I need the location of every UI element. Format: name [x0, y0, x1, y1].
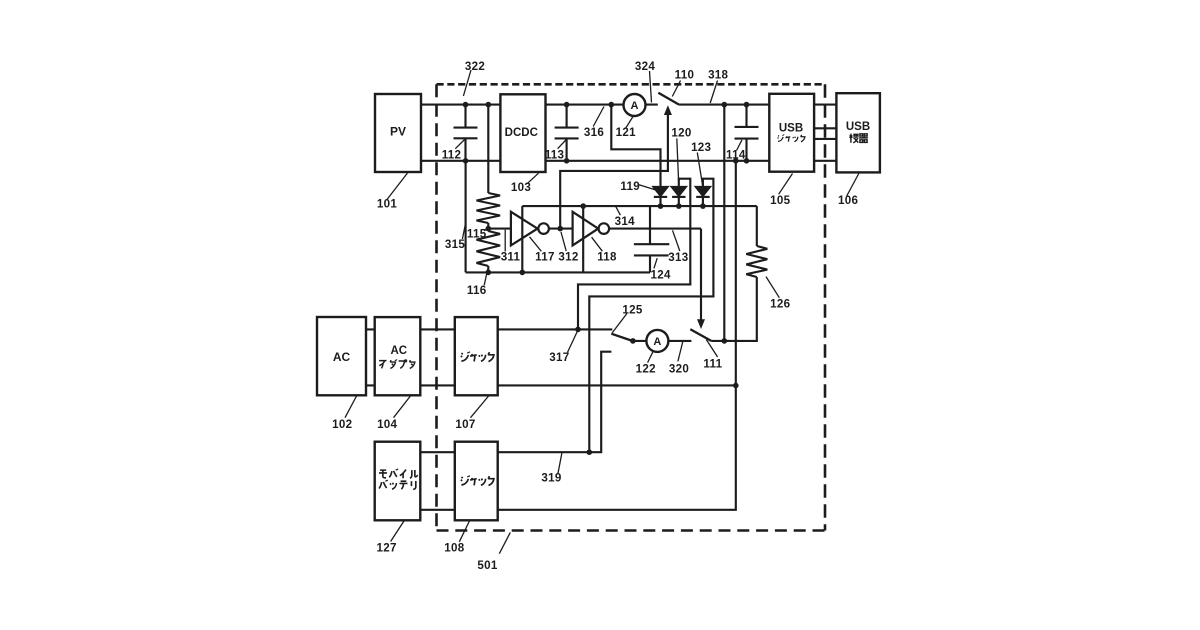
- svg-text:316: 316: [584, 126, 604, 139]
- svg-text:113: 113: [545, 148, 565, 161]
- svg-text:311: 311: [501, 250, 521, 263]
- svg-text:117: 117: [535, 250, 555, 263]
- leader 107: [471, 396, 490, 418]
- leader 102: [345, 396, 357, 418]
- leader 115: [484, 229, 488, 231]
- leader 122: [648, 351, 654, 363]
- wire vertical through inverter 1: [521, 206, 523, 272]
- leader 312: [561, 232, 566, 251]
- wire top rail PV to DCDC: [421, 104, 500, 106]
- svg-text:123: 123: [691, 141, 711, 154]
- svg-text:DCDC: DCDC: [505, 127, 538, 139]
- AC adapter box 104: [375, 317, 421, 395]
- svg-text:104: 104: [377, 418, 397, 431]
- svg-text:AC: AC: [333, 350, 351, 364]
- resistor R126: [746, 246, 767, 277]
- svg-text:318: 318: [708, 68, 728, 81]
- node divider feed junction on top rail: [486, 102, 492, 108]
- node junction on rail 314: [580, 203, 586, 209]
- wire battery row bottom rail: [420, 509, 455, 511]
- svg-text:319: 319: [541, 472, 561, 485]
- leader 320: [678, 342, 683, 361]
- node D123 cathode junction: [700, 203, 706, 209]
- text battery katakana: [379, 480, 416, 489]
- diode D123 cathode bar: [696, 196, 709, 198]
- diode D123: [696, 187, 710, 196]
- wire 315 left drop: [465, 161, 467, 273]
- ammeter 122 circle: [646, 330, 668, 352]
- arrowhead 120: [664, 105, 672, 115]
- USB device box 106: [836, 93, 880, 172]
- wire dashed pass-through inside DCDC: [500, 160, 545, 162]
- wire battery row top rail: [420, 352, 611, 453]
- arrowhead 111: [697, 319, 705, 329]
- leader 311: [504, 230, 506, 252]
- wire node 312: [549, 228, 573, 230]
- leader 125: [612, 314, 627, 333]
- USB jack box 105: [769, 94, 814, 172]
- wire feed to resistor divider: [487, 105, 489, 193]
- wire USB pin 3: [814, 138, 836, 140]
- leader 127: [391, 521, 405, 542]
- svg-text:PV: PV: [390, 125, 406, 139]
- node R116 junction on ground rail: [486, 270, 492, 276]
- wire oscillator ground rail: [466, 271, 650, 273]
- leader 317: [568, 332, 578, 353]
- leader 319: [558, 452, 562, 473]
- svg-text:119: 119: [620, 180, 640, 193]
- node 317 junction: [575, 327, 581, 333]
- wire AC row top rail: [366, 328, 612, 330]
- svg-text:101: 101: [377, 198, 397, 211]
- leader 313: [673, 230, 680, 251]
- svg-text:121: 121: [616, 126, 636, 139]
- leader 501: [499, 532, 510, 553]
- wire inverter 2 output: [609, 228, 701, 230]
- node 319 junction: [587, 449, 593, 455]
- capacitor C313/124: [634, 206, 669, 272]
- leader 110: [672, 81, 680, 97]
- svg-text:106: 106: [838, 194, 858, 207]
- capacitor C112: [454, 105, 478, 161]
- capacitor C114: [735, 105, 759, 161]
- jack box 107: [455, 317, 498, 395]
- wire arrow 111 drop from inverter output: [700, 229, 702, 320]
- switch 125 blade: [611, 334, 632, 341]
- inverter U312 triangle: [573, 212, 599, 246]
- AC box 102: [317, 317, 366, 395]
- dashed boundary box 501: [437, 84, 826, 530]
- svg-text:312: 312: [558, 250, 578, 263]
- wire ammeter 122 to switch 111: [633, 340, 692, 342]
- svg-text:AC: AC: [390, 345, 407, 357]
- node 316 junction on top rail: [609, 102, 615, 108]
- diode D119: [654, 187, 668, 196]
- svg-text:322: 322: [465, 60, 485, 73]
- node D119 cathode junction: [658, 203, 664, 209]
- wire divider middle: [487, 223, 489, 231]
- svg-text:320: 320: [669, 363, 689, 376]
- wire D123 cathode lead: [702, 197, 704, 206]
- leader 103: [527, 173, 539, 184]
- text USB jack katakana: [778, 135, 805, 142]
- svg-text:126: 126: [770, 298, 790, 311]
- inverter U311 bubble: [538, 223, 549, 234]
- svg-text:105: 105: [770, 194, 790, 207]
- svg-text:110: 110: [675, 68, 695, 81]
- leader 113: [558, 140, 567, 149]
- leader 120: [677, 139, 679, 187]
- wire drop from top rail to switch node: [723, 105, 725, 341]
- diode D119 cathode bar: [654, 196, 667, 198]
- wire top rail switch to USB jack: [679, 104, 769, 106]
- svg-text:317: 317: [549, 351, 569, 364]
- node 318 junction on top rail: [722, 102, 728, 108]
- node C112 junction on bottom rail: [463, 158, 469, 164]
- node C113 junction on bottom rail: [564, 158, 570, 164]
- node 312 junction: [557, 226, 563, 232]
- text mobile katakana: [379, 469, 418, 478]
- resistor R115: [477, 193, 501, 223]
- svg-text:116: 116: [467, 284, 487, 297]
- leader 117: [530, 237, 542, 252]
- svg-text:124: 124: [650, 268, 670, 281]
- svg-text:112: 112: [442, 148, 462, 161]
- inverter U312 bubble: [599, 223, 610, 234]
- wire vertical through inverter 2: [582, 206, 584, 272]
- svg-text:315: 315: [445, 238, 465, 251]
- resistor R116: [477, 231, 501, 266]
- leader 118: [592, 237, 603, 251]
- leader 108: [459, 521, 469, 542]
- leader 324: [650, 71, 652, 103]
- wire D120 cathode lead: [678, 197, 680, 206]
- leader 106: [847, 174, 859, 197]
- svg-text:USB: USB: [779, 123, 803, 135]
- node 322 junction on top rail: [463, 102, 469, 108]
- svg-text:102: 102: [332, 418, 352, 431]
- wire inverter U311 input: [488, 228, 511, 230]
- text AC adapter katakana: [379, 360, 415, 369]
- leader 126: [766, 277, 779, 298]
- leader 112: [455, 140, 464, 149]
- wire USB pin 1: [814, 104, 836, 106]
- wire drop from bottom rail to AC return and jack108 return: [498, 161, 736, 510]
- leader 119: [639, 185, 656, 190]
- svg-text:501: 501: [477, 559, 497, 572]
- svg-text:125: 125: [622, 303, 642, 316]
- text jack108 katakana: [461, 476, 470, 485]
- node junction on ground rail: [520, 270, 526, 276]
- leader 322: [463, 70, 471, 96]
- mobile battery box 127: [375, 442, 421, 521]
- diode D120: [672, 187, 686, 196]
- svg-text:USB: USB: [846, 121, 870, 133]
- capacitor C113: [555, 105, 579, 161]
- leader 101: [387, 173, 408, 200]
- node switch 125 output junction: [630, 338, 636, 344]
- node switch 111 output junction: [722, 338, 728, 344]
- leader 314: [616, 207, 621, 216]
- DCDC box 103: [500, 94, 545, 172]
- svg-text:103: 103: [511, 181, 531, 194]
- leader 315: [462, 223, 465, 239]
- node C114 junction on top rail: [744, 102, 750, 108]
- PV box 101: [375, 94, 421, 172]
- svg-text:120: 120: [671, 127, 691, 140]
- resistor R126 bottom lead: [711, 277, 757, 341]
- wire R116 bottom lead: [487, 266, 489, 272]
- svg-text:314: 314: [615, 215, 635, 228]
- wire USB pin 2: [814, 127, 836, 129]
- diode D120 cathode bar: [672, 196, 685, 198]
- leader 114: [737, 140, 743, 151]
- svg-text:122: 122: [636, 363, 656, 376]
- jack box 108: [455, 442, 498, 521]
- leader 116: [484, 269, 488, 285]
- svg-text:118: 118: [597, 250, 617, 263]
- leader 123: [697, 153, 702, 187]
- wire bottom rail PV to DCDC: [421, 160, 500, 162]
- leader 105: [779, 174, 793, 195]
- wire AC row bottom rail: [366, 384, 736, 386]
- node return junction on bottom rail: [733, 158, 739, 164]
- wire USB pin 4: [814, 160, 836, 162]
- svg-text:A: A: [631, 100, 639, 112]
- wire D120 anode staple: [578, 179, 690, 330]
- node D120 cathode junction: [676, 203, 682, 209]
- wire D119 cathode lead: [659, 197, 661, 206]
- wire D123 anode staple: [589, 179, 713, 453]
- switch 111 blade: [690, 329, 711, 341]
- inverter U311 triangle: [511, 212, 538, 246]
- leader 124: [654, 258, 657, 268]
- text jack107 katakana: [461, 352, 470, 361]
- svg-text:114: 114: [726, 148, 746, 161]
- svg-text:313: 313: [668, 251, 688, 264]
- leader 121: [626, 117, 634, 129]
- svg-text:107: 107: [455, 418, 475, 431]
- wire top rail DCDC to switch 324 left contact: [546, 104, 658, 106]
- leader 104: [394, 396, 411, 418]
- switch 324/110 blade: [658, 93, 679, 105]
- node AC return junction: [733, 383, 739, 389]
- svg-text:108: 108: [444, 542, 464, 555]
- wire bottom rail DCDC to USB jack: [546, 160, 770, 162]
- node C114 junction on bottom rail: [744, 158, 750, 164]
- wire node B riser to arrow 120: [560, 114, 668, 228]
- leader 318: [710, 81, 717, 104]
- leader 316: [593, 107, 604, 127]
- text USB device kanji: [850, 134, 859, 143]
- svg-text:127: 127: [376, 542, 396, 555]
- svg-text:324: 324: [635, 60, 655, 73]
- ammeter 121 circle: [624, 94, 646, 116]
- resistor R126 top lead: [756, 206, 758, 246]
- leader 111: [706, 340, 717, 358]
- svg-text:115: 115: [467, 228, 487, 241]
- wire feedback rail 314: [522, 205, 757, 207]
- svg-text:A: A: [653, 336, 661, 348]
- node C113 junction on top rail: [564, 102, 570, 108]
- wire jog from node 316 to diode 119: [611, 105, 660, 187]
- node divider tap junction: [486, 226, 492, 232]
- svg-text:111: 111: [703, 357, 722, 370]
